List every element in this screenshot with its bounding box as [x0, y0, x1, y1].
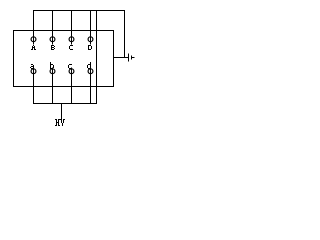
terminal d circle	[88, 69, 93, 74]
enclosure box right edge	[96, 10, 98, 104]
wire top bus	[33, 10, 125, 12]
terminal B circle	[50, 37, 55, 42]
label A	[31, 45, 36, 50]
terminal D circle	[88, 37, 93, 42]
terminal a circle	[31, 69, 36, 74]
battery short plate	[131, 56, 133, 60]
label d	[87, 62, 91, 69]
enclosure box top edge with right extension	[13, 30, 114, 32]
label C	[69, 45, 73, 50]
wire terminal b drop	[52, 68, 54, 105]
label c	[68, 64, 72, 69]
wire terminal d drop	[90, 68, 92, 105]
wire terminal a drop	[33, 68, 35, 105]
label HV letter V	[60, 119, 65, 126]
wire HV lead	[61, 104, 63, 120]
wire right vertical V7	[113, 30, 115, 87]
wire bottom bus	[33, 103, 97, 105]
wire terminal A drop	[33, 10, 35, 45]
wire bus drop to battery right	[124, 10, 126, 58]
label HV letter H	[55, 119, 60, 126]
terminal b circle	[50, 69, 55, 74]
battery long plate	[128, 54, 130, 62]
enclosure box left edge	[13, 30, 15, 87]
wire terminal D drop	[90, 10, 92, 45]
label B	[51, 45, 55, 50]
wire terminal B drop	[52, 10, 54, 45]
enclosure box bottom edge with right extension	[13, 86, 114, 88]
terminal c circle	[69, 69, 74, 74]
label D	[88, 45, 92, 50]
terminal C circle	[69, 37, 74, 42]
wire terminal C drop	[71, 10, 73, 45]
wire battery right stub	[132, 57, 135, 59]
terminal A circle	[31, 37, 36, 42]
label a	[30, 64, 34, 69]
label b	[50, 62, 54, 69]
wire terminal c drop	[71, 68, 73, 105]
wire battery feed	[113, 57, 128, 59]
